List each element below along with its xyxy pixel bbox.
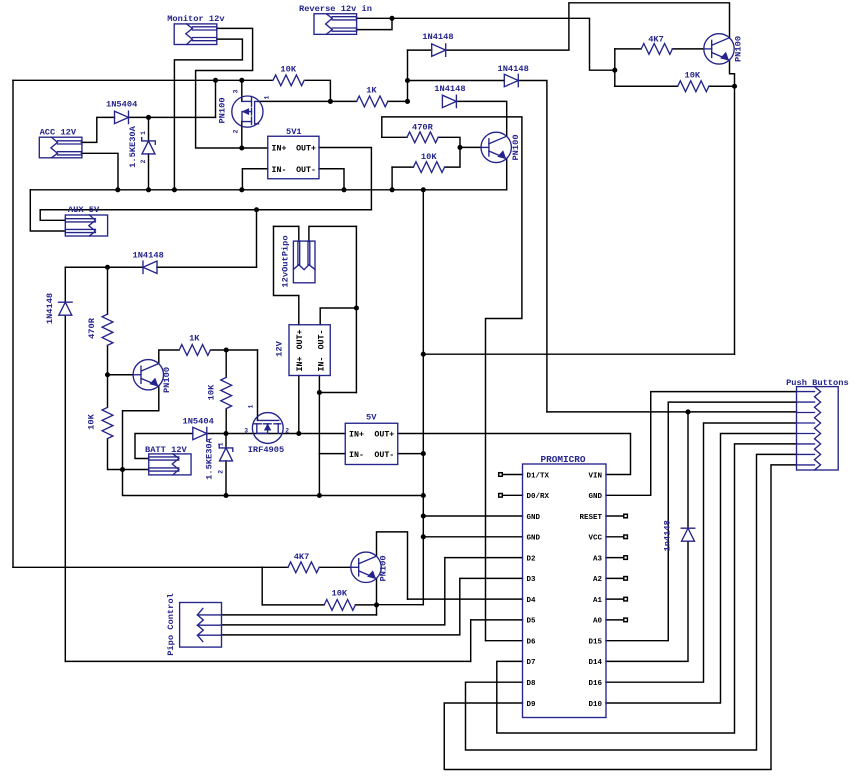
wire pin1 stub [298, 226, 300, 241]
wire Q2 emitter to ground bus [506, 159, 508, 190]
wire 5V OUT+ to VIN [398, 434, 631, 475]
svg-text:1K: 1K [366, 86, 377, 96]
svg-text:1N5404: 1N5404 [106, 100, 137, 110]
wire TVS2 bottom lead [225, 461, 227, 496]
diode D3 1N4148 [504, 74, 518, 86]
junction [223, 431, 228, 436]
wire push row6 to D7 [497, 444, 797, 733]
wire diode to D14 [606, 541, 688, 661]
wire Q5 pin3 drain [241, 80, 243, 101]
tvs DZ1 1.5KE30A [142, 138, 156, 154]
svg-text:RESET: RESET [579, 514, 602, 522]
svg-text:1N4148: 1N4148 [133, 250, 164, 260]
svg-text:2: 2 [232, 129, 239, 133]
tvs DZ2 1.5KE30A [219, 445, 233, 461]
junction [146, 187, 151, 192]
resistor R11 4K7 [288, 562, 319, 573]
wire push row5 to D10 [606, 434, 797, 704]
diode D6 1N4148 [59, 302, 73, 315]
wire 4K7 node down [261, 567, 263, 605]
connector J-BATT 12V [149, 454, 191, 475]
svg-text:IN-: IN- [318, 357, 327, 372]
diode D1 1N5404 [115, 111, 129, 123]
wire Q4 emitter down [376, 578, 378, 615]
svg-text:1N5404: 1N5404 [183, 416, 214, 426]
svg-text:2: 2 [217, 470, 224, 474]
junction [421, 513, 426, 518]
wire BATT pin2 [123, 469, 149, 471]
connector J-AUX 5V [65, 215, 107, 236]
wire Q3 base [108, 374, 134, 376]
wire VCC stub [606, 536, 624, 538]
wire A1 stub [606, 598, 624, 600]
wire D6 row [486, 640, 523, 642]
wire 4K7-10K link column [614, 49, 616, 86]
wire 10K4 bottom lead [108, 439, 123, 470]
junction [223, 493, 228, 498]
wire IRF gate vertical [257, 350, 259, 420]
wire D4 row [408, 598, 523, 600]
svg-text:1: 1 [264, 95, 271, 99]
connector J-ACC 12V [39, 137, 82, 158]
junction [457, 145, 462, 150]
svg-text:1.5KE30A: 1.5KE30A [205, 437, 215, 479]
connector J-Pipo Control [180, 603, 222, 648]
wire Pipo pin2 vertical [355, 226, 357, 392]
wire Monitor pin1 to 12V node [196, 28, 253, 148]
svg-text:10K: 10K [421, 152, 437, 162]
wire Q1 emitter jog [730, 60, 735, 86]
svg-text:A2: A2 [593, 576, 603, 584]
wire Q1 emitter to ground run [734, 86, 736, 354]
svg-text:1N4148: 1N4148 [434, 84, 465, 94]
connector J-Reverse 12v in [314, 14, 357, 35]
junction [421, 451, 426, 456]
svg-text:Monitor 12v: Monitor 12v [167, 14, 225, 24]
svg-text:5V: 5V [366, 413, 377, 423]
junction [105, 372, 110, 377]
svg-text:ACC 12V: ACC 12V [40, 128, 77, 138]
resistor R4 10K [678, 81, 709, 92]
wire 10K right to gate node [306, 80, 331, 101]
wire GND to push row1 [606, 392, 797, 496]
no-connect VCC [624, 535, 628, 539]
junction [239, 78, 244, 83]
svg-text:12vOutPipo: 12vOutPipo [281, 235, 291, 287]
no-connect A0 [624, 618, 628, 622]
wire 5V IN- link [319, 453, 345, 455]
transistor Q1 PN100 [704, 34, 734, 64]
wire D6 cathode lead [108, 266, 144, 268]
svg-text:10K: 10K [332, 589, 348, 599]
wire A2 stub [606, 577, 624, 579]
junction [105, 265, 110, 270]
transistor Q3 PN100 [133, 360, 163, 390]
junction [421, 352, 426, 357]
wire A0 stub [606, 619, 624, 621]
svg-text:VCC: VCC [588, 535, 602, 543]
wire Pipo pin1 row [222, 614, 377, 616]
wire to 5V1 IN+ [242, 147, 268, 149]
junction [732, 84, 737, 89]
wire D2 to Pipo pin2 [222, 558, 523, 625]
ic U4 PROMICRO [523, 464, 607, 718]
svg-text:IRF4905: IRF4905 [248, 445, 285, 455]
svg-text:3: 3 [232, 89, 239, 93]
wire 12V IN- down to ground [318, 376, 320, 496]
svg-text:1: 1 [217, 442, 224, 446]
wire ground bus lower [226, 495, 423, 497]
wire D6 anode lead [157, 266, 257, 268]
no-connect A2 [624, 577, 628, 581]
wire 10K5 left lead [262, 604, 324, 606]
junction [328, 99, 333, 104]
wire up to bus [215, 80, 217, 117]
no-connect RESET [624, 514, 628, 518]
resistor R8 10K [102, 407, 113, 438]
svg-text:VIN: VIN [588, 472, 602, 480]
svg-text:A0: A0 [593, 618, 603, 626]
wire 470R top loop to D6 [382, 117, 522, 641]
svg-text:470R: 470R [87, 317, 97, 339]
svg-text:1: 1 [247, 404, 254, 408]
diode D5 1N4148 [143, 261, 157, 273]
wire D4 cathode to Q2 collector [456, 101, 507, 136]
svg-text:D16: D16 [588, 680, 602, 688]
junction [389, 16, 394, 21]
svg-text:OUT+: OUT+ [374, 431, 394, 440]
svg-text:PN100: PN100 [162, 367, 172, 393]
wire ACC pin1 to D 1N5404 [81, 117, 114, 142]
svg-text:D15: D15 [588, 638, 602, 646]
svg-text:4K7: 4K7 [648, 34, 664, 44]
connector J-Push Buttons [797, 387, 839, 470]
wire GND pin4 [423, 536, 522, 538]
wire Reverse pin1 [357, 17, 393, 19]
svg-text:IN+: IN+ [272, 145, 287, 154]
wire 10K to ground bus [391, 167, 393, 190]
wire Reverse to 4K7 node [392, 18, 615, 70]
wire 10K3 bottom lead [225, 409, 227, 434]
wire 470R left lead [382, 136, 407, 138]
wire push row8 to D9 [444, 465, 796, 770]
wire 470R2 top lead [107, 267, 109, 314]
svg-text:Reverse 12v in: Reverse 12v in [299, 4, 372, 14]
junction [354, 305, 359, 310]
svg-text:D5: D5 [527, 618, 537, 626]
wire gate row to 1K [259, 100, 357, 102]
svg-text:D0/RX: D0/RX [527, 493, 550, 501]
junction [146, 115, 151, 120]
junction [213, 78, 218, 83]
svg-text:Pipo Control: Pipo Control [166, 593, 176, 656]
svg-text:1N4148: 1N4148 [45, 293, 55, 324]
svg-text:1: 1 [140, 131, 147, 135]
wire 10K3 top lead [225, 350, 227, 377]
wire 4K7 to Q1 base [672, 48, 703, 50]
wire D3 anode lead [408, 80, 505, 82]
diode D7 1N5404 [193, 427, 207, 439]
wire ground horizontal mid [423, 353, 734, 355]
resistor R10 10K [221, 377, 232, 408]
wire TVS1 top lead [148, 117, 150, 140]
junction [341, 187, 346, 192]
wire 1K2 right to gate [211, 349, 258, 351]
wire pin1 to 12V OUT+ [274, 226, 299, 324]
wire left outer vertical [12, 80, 14, 567]
wire 5V1 OUT- to ground [319, 169, 344, 190]
resistor R5 470R [407, 132, 438, 143]
wire TVS1 bottom lead [148, 154, 150, 190]
svg-text:PROMICRO: PROMICRO [541, 454, 586, 465]
wire 10K left lead mid [392, 166, 413, 168]
junction [612, 68, 617, 73]
diode D4 1N4148 [442, 95, 456, 107]
junction [120, 467, 125, 472]
wire D1/TX stub [503, 474, 523, 476]
connector J-12vOutPipo [293, 241, 315, 283]
wire 10K5 right lead [355, 604, 376, 606]
junction [254, 207, 259, 212]
junction [172, 187, 177, 192]
svg-text:1.5KE30A: 1.5KE30A [128, 125, 138, 167]
wire ground to 10K pipo [377, 604, 424, 606]
wire 10K right lead mid [445, 147, 460, 167]
wire Monitor pin2 to ground bus [174, 39, 242, 190]
transistor Q5 PN100 MOSFET [232, 96, 263, 127]
wire 10K4 top lead [107, 375, 109, 407]
wire 5V1 OUT+ down to 5V rail [319, 148, 371, 210]
svg-text:OUT+: OUT+ [296, 145, 316, 154]
wire 4K7 left lead [615, 48, 641, 50]
svg-text:D9: D9 [527, 701, 537, 709]
wire 1N5404 cathode row [129, 116, 216, 118]
wire 4K7-2 to Q4 base [319, 566, 351, 568]
svg-text:D2: D2 [527, 555, 537, 563]
wire 12V-ACC bus top [13, 79, 272, 81]
svg-text:10K: 10K [280, 65, 296, 75]
junction [374, 602, 379, 607]
svg-text:PN100: PN100 [511, 134, 521, 160]
junction [405, 78, 410, 83]
wire ground bus lower left [123, 470, 227, 496]
svg-text:D4: D4 [527, 597, 537, 605]
wire row link to D7 [65, 266, 107, 268]
wire 12V main row [207, 433, 345, 435]
wire ACC pin2 to ground bus [81, 153, 118, 190]
wire ground main vertical [422, 190, 424, 605]
wire D3-net to push row3 [547, 411, 797, 413]
wire AUX pin1 5V rail [40, 210, 371, 221]
wire push row3 diode top [687, 412, 689, 528]
no-connect D0/RX [499, 494, 503, 498]
wire Q3 emitter down [123, 386, 159, 470]
resistor R6 10K [413, 162, 444, 173]
regulator U3 5V [345, 423, 398, 464]
svg-text:12V: 12V [274, 340, 284, 356]
junction [421, 493, 426, 498]
junction [115, 187, 120, 192]
wire to 4K7 base feed [13, 566, 262, 568]
wire link IN- to pin2 col [319, 392, 356, 394]
wire D3 cathode long vertical [518, 81, 547, 412]
resistor R2 1K [357, 96, 388, 107]
svg-text:3: 3 [244, 427, 248, 434]
svg-text:D1/TX: D1/TX [527, 472, 550, 480]
junction [685, 409, 690, 414]
wire 4K7-2 left lead [262, 566, 288, 568]
junction [296, 431, 301, 436]
wire D2 anode lead [408, 49, 432, 51]
resistor R3 4K7 [641, 44, 672, 55]
wire 1K right lead [388, 100, 408, 102]
regulator U2 12V [289, 325, 330, 376]
svg-text:PN100: PN100 [378, 555, 388, 581]
wire Q2 base [460, 146, 481, 148]
wire GND pin3 [423, 515, 522, 517]
regulator U1 5V1 [268, 136, 319, 179]
wire Pipo pin1 top left [274, 225, 299, 227]
wire push row4 to D16 [606, 423, 797, 682]
svg-text:PN100: PN100 [734, 36, 744, 62]
junction [317, 390, 322, 395]
wire Q3 collector up [159, 350, 179, 364]
svg-text:IN+: IN+ [296, 357, 305, 372]
wire 470R2 bottom to base node [107, 345, 109, 374]
transistor Q2 PN100 [481, 132, 511, 162]
svg-text:D7: D7 [527, 659, 536, 667]
svg-text:GND: GND [527, 535, 541, 543]
wire Q5 pin2 source [241, 122, 243, 148]
svg-text:10K: 10K [87, 413, 97, 429]
wire 10K right lead [709, 85, 735, 87]
svg-text:PN100: PN100 [217, 97, 227, 123]
junction [405, 99, 410, 104]
no-connect D1/TX [499, 473, 503, 477]
wire D7 anode long vertical [64, 315, 66, 661]
wire push row2 to D15 [606, 402, 797, 641]
wire up to 5V rail [256, 210, 258, 268]
wire Q4 collector loop [377, 532, 408, 599]
wire D5 pin lead [471, 619, 523, 621]
svg-text:2: 2 [140, 159, 147, 163]
svg-text:1K: 1K [189, 334, 200, 344]
wire bus to AUX pin2 [30, 190, 65, 231]
junction [317, 493, 322, 498]
junction [421, 187, 426, 192]
transistor Q4 PN100 [351, 552, 381, 582]
junction [239, 145, 244, 150]
wire D3 to Pipo pin3 [222, 578, 523, 635]
svg-text:D10: D10 [588, 701, 602, 709]
no-connect A1 [624, 597, 628, 601]
svg-text:5V1: 5V1 [286, 127, 302, 137]
resistor R12 10K [324, 600, 355, 611]
svg-text:AUX 5V: AUX 5V [68, 205, 100, 215]
wire pin2 top right [309, 226, 357, 241]
wire 5V OUT- to ground [398, 453, 424, 455]
wire RESET stub [606, 515, 624, 517]
svg-text:10K: 10K [685, 71, 701, 81]
svg-text:1N4148: 1N4148 [422, 32, 453, 42]
svg-text:D14: D14 [588, 659, 602, 667]
junction [224, 347, 229, 352]
svg-text:OUT-: OUT- [296, 166, 316, 175]
wire push row7 to D8 [466, 454, 797, 750]
svg-text:1n4148: 1n4148 [662, 520, 672, 551]
wire bottom long horizontal to D5 [65, 660, 470, 662]
wire 5V1 IN- to ground [242, 169, 267, 190]
junction [390, 187, 395, 192]
junction [239, 187, 244, 192]
resistor R7 470R [102, 314, 113, 345]
svg-text:D3: D3 [527, 576, 537, 584]
transistor Q6 IRF4905 [252, 413, 283, 444]
svg-text:OUT-: OUT- [318, 330, 327, 350]
wire BATT pin1 to 1N5404 [135, 434, 193, 459]
wire ground bus upper [30, 189, 506, 191]
wire 12V IN+ down [298, 376, 300, 434]
wire Reverse pin2 tie [357, 18, 393, 29]
wire diode column vertical [407, 50, 409, 101]
diode D2 1N4148 [432, 44, 446, 56]
svg-text:OUT+: OUT+ [296, 329, 305, 349]
wire D0/RX stub [503, 494, 523, 496]
svg-text:1N4148: 1N4148 [498, 64, 529, 74]
no-connect A3 [624, 556, 628, 560]
svg-text:2: 2 [285, 427, 289, 434]
svg-text:OUT-: OUT- [374, 451, 394, 460]
diode D8 1n4148 [681, 528, 695, 541]
wire to 12V OUT- [320, 308, 356, 325]
svg-text:A1: A1 [593, 597, 603, 605]
wire TVS2 top lead [225, 434, 227, 448]
svg-text:10K: 10K [206, 384, 216, 400]
wire up to D5 [470, 620, 472, 662]
svg-text:GND: GND [588, 493, 602, 501]
svg-text:IN-: IN- [272, 166, 287, 175]
wire A3 stub [606, 557, 624, 559]
svg-text:IN+: IN+ [349, 431, 364, 440]
wire 10K left lead [615, 85, 678, 87]
svg-text:D8: D8 [527, 680, 537, 688]
svg-text:IN-: IN- [349, 451, 364, 460]
svg-text:4K7: 4K7 [294, 552, 310, 562]
wire D2 cathode to Q1 collector [446, 3, 730, 50]
wire 470R right lead [438, 137, 460, 147]
resistor R1 10K [273, 75, 304, 86]
wire D7 top lead [64, 267, 66, 302]
resistor R9 1K [179, 345, 210, 356]
svg-text:D6: D6 [527, 638, 537, 646]
connector J-Monitor 12v [174, 24, 217, 45]
junction [421, 534, 426, 539]
svg-text:GND: GND [527, 514, 541, 522]
svg-text:A3: A3 [593, 555, 603, 563]
